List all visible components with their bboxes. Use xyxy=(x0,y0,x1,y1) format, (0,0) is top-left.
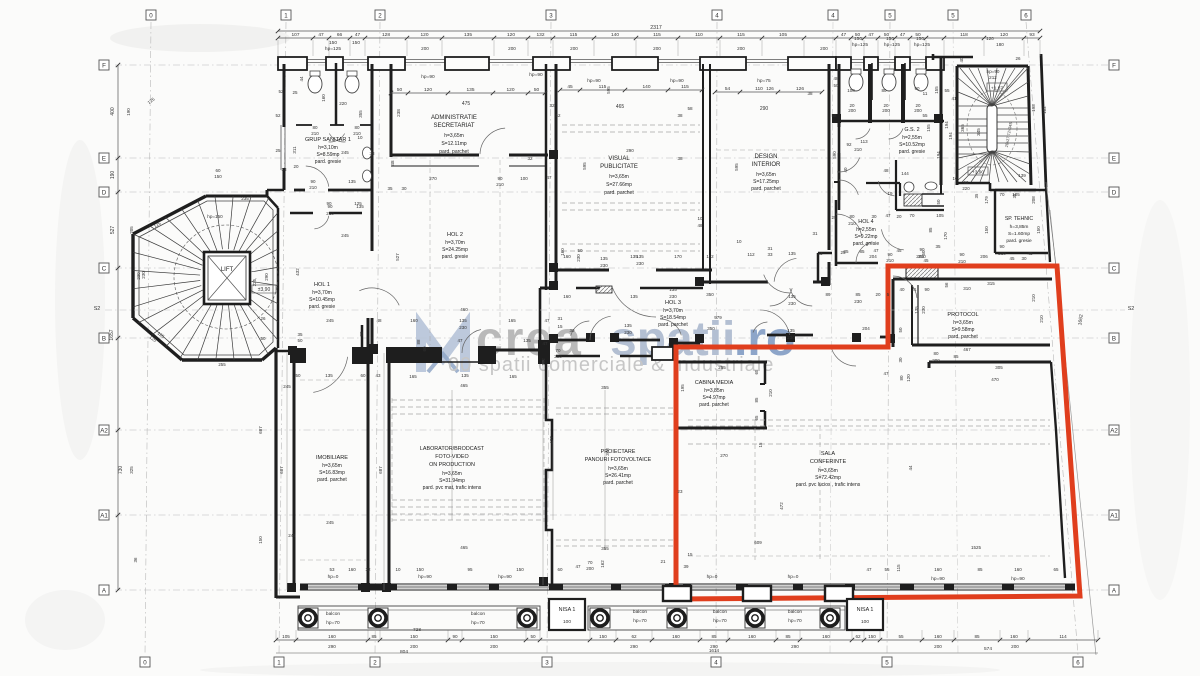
svg-text:230: 230 xyxy=(624,330,632,335)
svg-text:50: 50 xyxy=(898,327,903,333)
svg-text:h=3,65m: h=3,65m xyxy=(444,133,464,139)
svg-text:70: 70 xyxy=(909,213,915,218)
interior dashed lines xyxy=(562,124,700,126)
svg-text:SALA: SALA xyxy=(821,451,836,457)
svg-text:2: 2 xyxy=(373,660,377,667)
svg-text:S=31.94mp: S=31.94mp xyxy=(439,478,465,484)
svg-text:10: 10 xyxy=(953,176,958,181)
svg-text:47: 47 xyxy=(542,341,548,346)
svg-text:200: 200 xyxy=(508,46,516,51)
svg-text:135: 135 xyxy=(348,179,356,184)
svg-text:245: 245 xyxy=(288,533,296,538)
svg-text:38: 38 xyxy=(677,156,683,161)
svg-text:112: 112 xyxy=(706,254,714,259)
svg-text:150: 150 xyxy=(214,174,222,179)
svg-text:+3,90: +3,90 xyxy=(972,170,984,176)
svg-text:S=16.83mp: S=16.83mp xyxy=(319,470,345,476)
svg-text:h=3,85m: h=3,85m xyxy=(1010,224,1029,230)
svg-text:38: 38 xyxy=(807,91,813,96)
svg-text:355: 355 xyxy=(601,546,609,551)
svg-text:200: 200 xyxy=(410,644,418,649)
svg-text:85: 85 xyxy=(974,634,980,639)
svg-text:47: 47 xyxy=(355,32,361,38)
svg-text:S=8.59mp: S=8.59mp xyxy=(317,152,340,158)
svg-text:150: 150 xyxy=(868,634,876,639)
svg-text:hp=90: hp=90 xyxy=(498,574,512,580)
svg-text:0: 0 xyxy=(143,660,147,667)
svg-text:E: E xyxy=(1112,156,1116,163)
svg-text:44: 44 xyxy=(299,76,304,82)
svg-text:120: 120 xyxy=(420,32,428,38)
svg-text:220: 220 xyxy=(962,186,970,191)
svg-text:pard. gresie: pard. gresie xyxy=(315,159,342,165)
svg-text:50: 50 xyxy=(577,248,583,253)
svg-text:20: 20 xyxy=(293,164,299,169)
svg-text:S=18.54mp: S=18.54mp xyxy=(660,315,686,321)
svg-text:107: 107 xyxy=(291,32,299,38)
svg-text:90: 90 xyxy=(452,634,458,639)
svg-text:135: 135 xyxy=(466,87,474,93)
svg-text:48: 48 xyxy=(833,76,839,81)
svg-text:D: D xyxy=(1112,190,1117,197)
svg-text:200: 200 xyxy=(848,108,856,113)
svg-text:pard. parchet: pard. parchet xyxy=(699,402,729,408)
svg-text:h=3,70m: h=3,70m xyxy=(312,290,332,296)
svg-text:230: 230 xyxy=(636,261,644,266)
svg-text:10: 10 xyxy=(395,567,401,572)
svg-text:43: 43 xyxy=(375,373,381,378)
svg-text:114: 114 xyxy=(1059,634,1067,639)
svg-text:270: 270 xyxy=(720,453,728,458)
svg-text:50: 50 xyxy=(295,373,301,378)
svg-text:FOTO-VIDEO: FOTO-VIDEO xyxy=(435,454,468,460)
svg-text:LIFT: LIFT xyxy=(221,267,234,273)
red highlighted zone outline xyxy=(676,266,1080,599)
svg-text:58: 58 xyxy=(687,106,693,111)
svg-text:100: 100 xyxy=(563,619,571,625)
svg-text:160: 160 xyxy=(1014,567,1022,572)
svg-text:HOL 4: HOL 4 xyxy=(858,219,873,225)
svg-text:160: 160 xyxy=(748,634,756,639)
svg-text:1: 1 xyxy=(277,660,281,667)
svg-text:160: 160 xyxy=(563,294,571,299)
svg-text:C: C xyxy=(102,266,107,273)
svg-text:PROTOCOL: PROTOCOL xyxy=(947,312,978,318)
svg-text:20: 20 xyxy=(875,292,881,297)
svg-text:1657: 1657 xyxy=(109,329,115,340)
svg-text:80: 80 xyxy=(899,375,904,381)
svg-text:1614: 1614 xyxy=(709,648,720,653)
svg-text:55: 55 xyxy=(922,113,928,118)
svg-text:35: 35 xyxy=(297,332,303,337)
svg-text:225,: 225, xyxy=(252,278,257,287)
svg-text:66: 66 xyxy=(337,32,343,38)
svg-text:52: 52 xyxy=(555,113,561,118)
svg-text:210: 210 xyxy=(309,185,317,190)
svg-text:6: 6 xyxy=(1024,13,1028,20)
svg-text:10: 10 xyxy=(697,216,703,221)
svg-text:200: 200 xyxy=(490,644,498,649)
svg-text:194: 194 xyxy=(944,121,949,129)
svg-text:19: 19 xyxy=(887,191,893,196)
svg-text:ADMINISTRATIE: ADMINISTRATIE xyxy=(431,115,477,121)
svg-text:HOL 3: HOL 3 xyxy=(665,300,681,306)
svg-text:HOL 2: HOL 2 xyxy=(447,232,463,238)
svg-text:6: 6 xyxy=(1076,660,1080,667)
svg-text:10: 10 xyxy=(736,239,742,244)
svg-text:120: 120 xyxy=(986,36,994,41)
svg-text:135: 135 xyxy=(914,306,919,314)
svg-text:135: 135 xyxy=(624,323,632,328)
svg-text:88: 88 xyxy=(416,339,421,345)
svg-text:200: 200 xyxy=(882,108,890,113)
svg-text:25: 25 xyxy=(831,215,837,220)
svg-text:200: 200 xyxy=(914,108,922,113)
svg-text:CABINA MEDIA: CABINA MEDIA xyxy=(695,380,734,386)
svg-text:200: 200 xyxy=(653,46,661,51)
svg-text:230: 230 xyxy=(921,306,926,314)
svg-text:180: 180 xyxy=(996,42,1004,47)
svg-text:70: 70 xyxy=(555,348,561,353)
spiral staircase tower xyxy=(133,234,202,265)
svg-text:245: 245 xyxy=(326,520,334,525)
svg-text:112: 112 xyxy=(747,252,755,257)
svg-text:52: 52 xyxy=(278,89,284,94)
svg-text:126: 126 xyxy=(796,86,804,92)
svg-text:S=72.42mp: S=72.42mp xyxy=(815,475,841,481)
svg-text:160: 160 xyxy=(934,567,942,572)
svg-text:55: 55 xyxy=(898,634,904,639)
svg-text:135: 135 xyxy=(788,251,796,256)
svg-text:595: 595 xyxy=(606,86,611,94)
svg-text:4: 4 xyxy=(831,13,835,20)
svg-text:204: 204 xyxy=(869,254,877,259)
svg-text:NISA 1: NISA 1 xyxy=(559,607,576,613)
svg-text:S=9.22mp: S=9.22mp xyxy=(855,234,878,240)
svg-text:32: 32 xyxy=(549,103,555,108)
svg-text:50: 50 xyxy=(855,32,861,38)
svg-text:150: 150 xyxy=(329,40,337,46)
svg-text:467: 467 xyxy=(963,347,971,352)
svg-text:93: 93 xyxy=(1029,32,1035,38)
svg-text:1: 1 xyxy=(284,13,288,20)
svg-text:85: 85 xyxy=(371,634,377,639)
svg-text:E: E xyxy=(102,156,106,163)
svg-text:235: 235 xyxy=(241,196,249,201)
svg-text:h=3,65m: h=3,65m xyxy=(609,174,629,180)
balconies xyxy=(663,586,691,601)
svg-text:B: B xyxy=(102,336,106,343)
svg-text:32: 32 xyxy=(365,567,371,572)
svg-text:135: 135 xyxy=(459,318,467,323)
svg-text:135: 135 xyxy=(636,254,644,259)
svg-text:115: 115 xyxy=(653,32,661,38)
svg-text:hp=125: hp=125 xyxy=(884,42,900,48)
svg-text:165: 165 xyxy=(509,374,517,379)
svg-text:52: 52 xyxy=(275,113,281,118)
svg-text:210: 210 xyxy=(768,389,773,397)
svg-text:5: 5 xyxy=(885,660,889,667)
svg-text:hp=0: hp=0 xyxy=(328,574,339,580)
svg-text:hp=70: hp=70 xyxy=(471,620,485,626)
svg-text:355: 355 xyxy=(358,110,363,118)
svg-text:85: 85 xyxy=(754,397,759,403)
svg-text:31: 31 xyxy=(557,316,563,321)
svg-text:S=24.25mp: S=24.25mp xyxy=(442,247,468,253)
svg-text:150: 150 xyxy=(410,634,418,639)
svg-text:56: 56 xyxy=(944,282,949,288)
svg-text:33: 33 xyxy=(767,252,773,257)
svg-text:85: 85 xyxy=(711,634,717,639)
svg-text:245: 245 xyxy=(341,150,349,155)
svg-text:140: 140 xyxy=(642,84,650,90)
svg-text:245: 245 xyxy=(283,384,291,389)
svg-text:205: 205 xyxy=(129,226,134,234)
svg-text:95: 95 xyxy=(467,567,473,572)
svg-text:160: 160 xyxy=(560,248,565,256)
svg-text:40: 40 xyxy=(899,287,905,292)
svg-text:hp=70: hp=70 xyxy=(713,618,727,624)
svg-text:+1,87: +1,87 xyxy=(991,86,1003,92)
svg-text:210: 210 xyxy=(1039,315,1044,323)
svg-text:465: 465 xyxy=(616,104,625,110)
svg-text:hp=0: hp=0 xyxy=(788,574,799,580)
svg-text:472: 472 xyxy=(779,502,784,510)
svg-text:h=3,65m: h=3,65m xyxy=(756,172,776,178)
svg-text:60: 60 xyxy=(360,373,366,378)
svg-text:26: 26 xyxy=(260,316,266,321)
svg-text:48: 48 xyxy=(390,160,395,166)
svg-text:65: 65 xyxy=(754,415,759,421)
svg-text:pard. parchet: pard. parchet xyxy=(948,334,978,340)
svg-text:45: 45 xyxy=(567,84,573,90)
svg-text:balcon: balcon xyxy=(713,609,727,615)
svg-text:hp=125: hp=125 xyxy=(852,42,868,48)
svg-text:2317: 2317 xyxy=(650,25,662,31)
svg-text:120: 120 xyxy=(1000,32,1008,38)
svg-text:pard. parchet: pard. parchet xyxy=(751,186,781,192)
svg-text:85: 85 xyxy=(977,567,983,572)
svg-text:92: 92 xyxy=(964,180,969,185)
svg-text:90: 90 xyxy=(310,179,316,184)
svg-text:15: 15 xyxy=(557,324,563,329)
svg-text:50: 50 xyxy=(884,32,890,38)
svg-text:305: 305 xyxy=(995,365,1003,370)
svg-text:62: 62 xyxy=(855,634,861,639)
svg-text:230: 230 xyxy=(600,263,608,268)
svg-text:162: 162 xyxy=(600,560,605,568)
svg-text:hp=90: hp=90 xyxy=(670,78,684,84)
scan artifacts xyxy=(110,24,290,52)
svg-text:198: 198 xyxy=(1031,104,1036,112)
svg-text:47: 47 xyxy=(544,318,550,323)
svg-text:47: 47 xyxy=(841,32,847,38)
svg-text:38: 38 xyxy=(369,151,375,156)
svg-text:290: 290 xyxy=(791,644,799,649)
svg-text:INTERIOR: INTERIOR xyxy=(752,162,781,168)
svg-text:25: 25 xyxy=(275,148,281,153)
svg-text:165: 165 xyxy=(508,318,516,323)
svg-text:200: 200 xyxy=(737,46,745,51)
svg-text:160: 160 xyxy=(328,634,336,639)
svg-text:hp=90: hp=90 xyxy=(1011,576,1025,582)
svg-text:h=3,65m: h=3,65m xyxy=(953,320,973,326)
svg-text:15: 15 xyxy=(687,552,693,557)
svg-text:hp=70: hp=70 xyxy=(633,618,647,624)
svg-text:105: 105 xyxy=(1012,192,1020,197)
svg-text:527: 527 xyxy=(395,253,400,261)
svg-text:15: 15 xyxy=(758,442,763,448)
svg-text:80: 80 xyxy=(849,214,855,219)
svg-text:126: 126 xyxy=(766,86,774,91)
svg-text:105: 105 xyxy=(779,32,787,38)
svg-text:135: 135 xyxy=(325,373,333,378)
svg-text:687: 687 xyxy=(378,466,383,474)
svg-text:120: 120 xyxy=(506,87,514,93)
svg-text:255: 255 xyxy=(218,362,226,367)
svg-text:979: 979 xyxy=(714,315,722,320)
svg-text:hp=90: hp=90 xyxy=(987,69,1000,74)
svg-text:balcon: balcon xyxy=(633,609,647,615)
svg-text:S=27.66mp: S=27.66mp xyxy=(606,182,632,188)
svg-text:355: 355 xyxy=(601,385,609,390)
svg-text:527: 527 xyxy=(110,226,116,235)
svg-text:PANOURI FOTOVOLTAICE: PANOURI FOTOVOLTAICE xyxy=(585,457,652,463)
svg-text:35: 35 xyxy=(974,193,979,198)
svg-text:90: 90 xyxy=(497,176,503,181)
svg-text:200: 200 xyxy=(421,46,429,51)
svg-text:118: 118 xyxy=(960,32,968,38)
building walls xyxy=(278,59,836,61)
lift shaft xyxy=(204,252,250,304)
svg-text:290: 290 xyxy=(630,644,638,649)
svg-text:41: 41 xyxy=(951,96,957,101)
svg-text:85: 85 xyxy=(859,249,865,254)
svg-text:hp=90: hp=90 xyxy=(931,576,945,582)
svg-text:55: 55 xyxy=(884,567,890,572)
svg-text:70: 70 xyxy=(999,192,1005,197)
svg-text:45: 45 xyxy=(1027,251,1033,256)
svg-text:206: 206 xyxy=(980,254,988,259)
svg-text:balcon: balcon xyxy=(471,611,485,617)
svg-text:50: 50 xyxy=(534,87,540,93)
svg-text:45: 45 xyxy=(1009,256,1015,261)
svg-text:465: 465 xyxy=(460,383,468,388)
svg-text:150: 150 xyxy=(352,40,360,46)
svg-text:hp=70: hp=70 xyxy=(326,620,340,626)
svg-text:687: 687 xyxy=(279,466,284,474)
svg-text:48: 48 xyxy=(697,223,703,228)
svg-text:110: 110 xyxy=(695,32,703,38)
svg-text:DESIGN: DESIGN xyxy=(754,154,777,160)
svg-text:311: 311 xyxy=(292,146,297,154)
svg-text:VISUAL: VISUAL xyxy=(608,156,630,162)
svg-text:345: 345 xyxy=(976,128,981,136)
svg-text:39: 39 xyxy=(683,564,689,569)
svg-text:132: 132 xyxy=(536,32,544,38)
svg-text:58: 58 xyxy=(831,113,837,118)
svg-text:378: 378 xyxy=(605,448,610,456)
svg-text:150: 150 xyxy=(258,536,263,544)
svg-text:200: 200 xyxy=(586,566,594,571)
svg-text:150: 150 xyxy=(1036,226,1041,234)
svg-text:A2: A2 xyxy=(100,428,108,435)
svg-text:194: 194 xyxy=(948,132,953,140)
svg-text:A1: A1 xyxy=(100,513,108,520)
svg-text:21: 21 xyxy=(911,287,917,292)
svg-text:160: 160 xyxy=(672,634,680,639)
svg-text:80: 80 xyxy=(354,125,360,130)
svg-text:hp=75: hp=75 xyxy=(757,78,771,84)
svg-text:165: 165 xyxy=(409,374,417,379)
svg-text:437: 437 xyxy=(549,436,554,444)
svg-text:h=3,65m: h=3,65m xyxy=(818,468,838,474)
straight staircase top right xyxy=(987,104,997,153)
svg-text:LABORATOR/BRODCAST: LABORATOR/BRODCAST xyxy=(420,446,485,452)
svg-text:pard. gresie: pard. gresie xyxy=(899,149,926,155)
svg-text:204: 204 xyxy=(862,326,870,331)
svg-text:135: 135 xyxy=(787,328,795,333)
svg-text:155: 155 xyxy=(926,124,931,132)
svg-text:47: 47 xyxy=(866,567,872,572)
svg-text:S=12.11mp: S=12.11mp xyxy=(441,141,467,147)
svg-text:47: 47 xyxy=(900,32,906,38)
svg-text:210: 210 xyxy=(848,221,856,226)
svg-text:230: 230 xyxy=(141,271,146,279)
svg-text:100: 100 xyxy=(861,619,869,625)
svg-text:140: 140 xyxy=(611,32,619,38)
svg-text:35: 35 xyxy=(935,244,941,249)
svg-text:A1: A1 xyxy=(1110,513,1118,520)
svg-text:220: 220 xyxy=(339,101,347,106)
svg-text:804: 804 xyxy=(400,649,408,655)
svg-text:21: 21 xyxy=(660,559,666,564)
svg-text:h=3,65m: h=3,65m xyxy=(322,463,342,469)
svg-text:GRUP SANITAR 1: GRUP SANITAR 1 xyxy=(305,137,351,143)
svg-text:190: 190 xyxy=(110,171,116,180)
svg-text:595: 595 xyxy=(582,162,587,170)
svg-text:30: 30 xyxy=(1021,256,1027,261)
svg-text:270: 270 xyxy=(429,176,437,181)
svg-text:44: 44 xyxy=(908,465,913,471)
svg-text:609: 609 xyxy=(754,540,762,545)
svg-text:574: 574 xyxy=(984,646,992,652)
svg-text:208: 208 xyxy=(1031,196,1036,204)
svg-text:60: 60 xyxy=(215,168,221,173)
svg-text:35: 35 xyxy=(387,186,393,191)
svg-text:23: 23 xyxy=(677,489,683,494)
svg-text:115: 115 xyxy=(570,32,578,38)
svg-text:160: 160 xyxy=(822,634,830,639)
svg-text:S=4.97mp: S=4.97mp xyxy=(703,395,726,401)
svg-text:F: F xyxy=(102,63,106,70)
svg-text:hp=90: hp=90 xyxy=(418,574,432,580)
svg-text:105: 105 xyxy=(936,213,944,218)
svg-text:350: 350 xyxy=(706,292,714,297)
svg-text:G.S. 2: G.S. 2 xyxy=(904,127,919,133)
svg-text:48: 48 xyxy=(376,318,382,323)
svg-text:10: 10 xyxy=(357,135,363,140)
svg-text:C: C xyxy=(1112,266,1117,273)
svg-text:325: 325 xyxy=(129,466,134,474)
svg-text:210: 210 xyxy=(886,258,894,263)
svg-text:47: 47 xyxy=(873,248,879,253)
svg-text:4: 4 xyxy=(715,13,719,20)
svg-text:5: 5 xyxy=(888,13,892,20)
svg-text:88: 88 xyxy=(359,331,364,337)
svg-text:475: 475 xyxy=(462,101,471,107)
svg-text:120: 120 xyxy=(906,374,911,382)
